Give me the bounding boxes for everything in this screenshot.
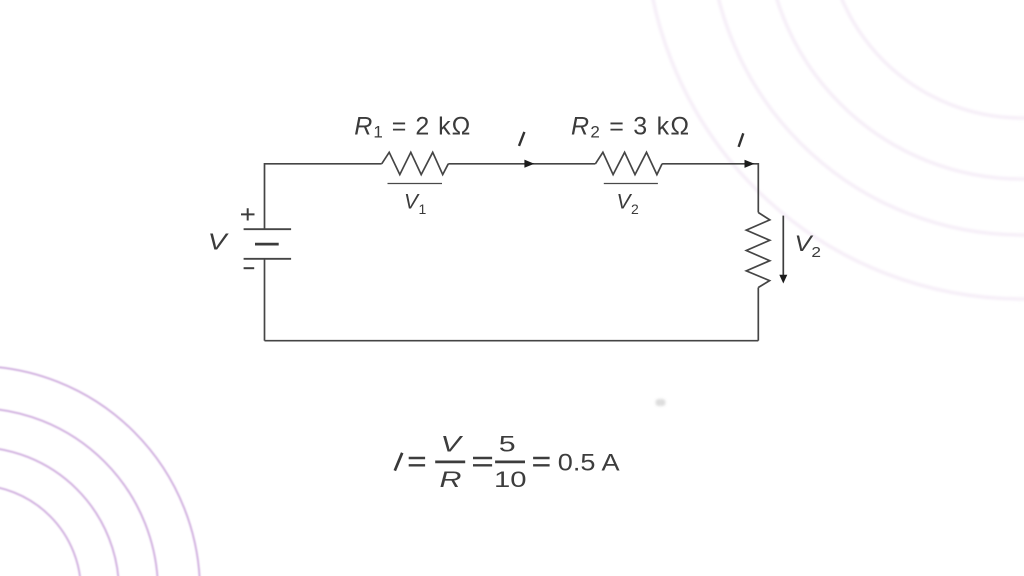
current arrow I (before top-right corner) xyxy=(745,160,755,168)
svg-text:5: 5 xyxy=(499,431,516,456)
svg-text:R: R xyxy=(439,467,461,492)
battery V: middle short plate xyxy=(255,243,279,246)
battery + polarity mark xyxy=(241,208,255,220)
equation: third equals xyxy=(533,458,550,465)
resistor R2 xyxy=(595,152,662,174)
equation: first equals xyxy=(409,458,425,465)
V2 drop arrow (down) xyxy=(782,216,784,276)
wire: R2 to top-right corner and down xyxy=(662,164,758,213)
current arrow I (between R1 and R2) xyxy=(524,160,534,168)
wire: bottom return xyxy=(265,340,759,342)
svg-text:10: 10 xyxy=(494,466,527,492)
svg-text:V: V xyxy=(440,431,463,456)
battery V: bottom plate xyxy=(244,258,292,260)
equation: I xyxy=(395,453,402,471)
battery V: top plate xyxy=(244,228,292,230)
decorative arcs (background) xyxy=(645,0,1024,299)
wire: R1 to R2 xyxy=(448,163,595,165)
resistor (right branch, V2 drop) xyxy=(746,213,770,288)
resistor R1 xyxy=(382,152,449,174)
equation: fraction bar V/R xyxy=(435,460,465,463)
wire: resistor bottom to bottom-right corner xyxy=(757,288,759,341)
svg-text:R1 = 2 kΩ: R1 = 2 kΩ xyxy=(354,112,471,141)
svg-text:0.5 A: 0.5 A xyxy=(558,450,621,476)
svg-text:V: V xyxy=(208,230,230,255)
current label I (right) xyxy=(739,133,744,147)
wire: battery + terminal up and across to R1 xyxy=(265,164,382,229)
battery - polarity mark xyxy=(244,267,255,269)
current label I (between R1 and R2) xyxy=(519,132,524,146)
wire: bottom-left corner up to battery - terminal xyxy=(264,259,266,341)
svg-text:R2 = 3 kΩ: R2 = 3 kΩ xyxy=(571,112,690,141)
underline under R1 xyxy=(388,183,443,185)
underline under R2 xyxy=(604,183,658,185)
equation: fraction bar 5/10 xyxy=(495,460,525,463)
equation: second equals xyxy=(473,458,492,465)
small faint smudge xyxy=(656,399,666,406)
